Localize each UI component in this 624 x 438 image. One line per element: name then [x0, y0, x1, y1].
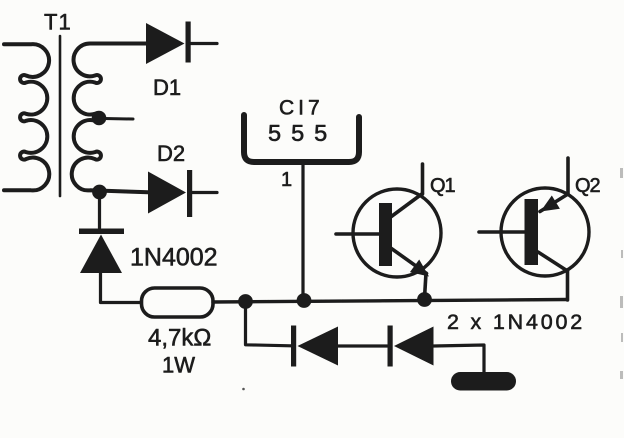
wire D1 cathode — [191, 42, 218, 45]
wire 555 pin 1 — [301, 164, 304, 300]
wire diode to resistor — [101, 272, 142, 303]
node bus junction B (555 pin 1) — [297, 293, 312, 308]
wire to 1N4002 diode — [98, 192, 101, 228]
transistor Q1 — [336, 164, 441, 298]
transformer T1 primary winding — [4, 44, 49, 190]
resistor 4,7k 1W — [142, 288, 214, 317]
svg-text:Q1: Q1 — [430, 175, 456, 197]
transformer T1 core — [59, 36, 62, 196]
node center-tap junction — [92, 111, 107, 126]
svg-text:1: 1 — [281, 169, 292, 191]
wire lower branch from junction A — [246, 302, 292, 346]
svg-text:T1: T1 — [44, 10, 72, 35]
svg-text:D2: D2 — [157, 141, 185, 166]
svg-text:CI7: CI7 — [279, 97, 324, 120]
wire center-tap stub — [104, 117, 133, 121]
wire between pair diodes — [338, 344, 387, 347]
svg-text:555: 555 — [268, 120, 337, 146]
wire Q1 base — [336, 232, 379, 236]
svg-text:1W: 1W — [162, 353, 195, 378]
op-amp U1: IC CI1 555 bracket — [244, 115, 359, 162]
node bus junction A — [238, 294, 253, 309]
wire Q1 collector — [390, 164, 423, 218]
svg-text:Q2: Q2 — [575, 175, 601, 197]
wire D2 cathode — [192, 191, 217, 194]
svg-text:D1: D1 — [153, 75, 181, 100]
transformer T1 secondary winding — [72, 43, 148, 192]
svg-text:1N4002: 1N4002 — [130, 244, 218, 272]
wire Q2 collector (bottom) — [538, 252, 568, 300]
wire Q2 emitter (top, arrow in) — [540, 158, 568, 212]
diode 1N4002 (vertical) — [79, 229, 124, 274]
diode D4 (right of pair) — [388, 326, 434, 367]
wire Q1 emitter — [390, 248, 427, 299]
transistor Q2 — [479, 158, 589, 300]
speck artifact — [242, 388, 245, 391]
svg-text:2 x 1N4002: 2 x 1N4002 — [447, 310, 585, 334]
wire Q2 base — [479, 230, 525, 234]
node secondary bottom junction — [92, 185, 107, 200]
diode D3 (left of pair) — [291, 326, 338, 367]
diode D1 — [146, 22, 191, 65]
node bus junction C (Q1 emitter) — [417, 292, 432, 307]
svg-text:4,7kΩ: 4,7kΩ — [148, 325, 211, 352]
wire to ground — [434, 345, 485, 372]
wire main bus — [213, 300, 567, 303]
diode D2 — [148, 170, 192, 217]
ground — [451, 372, 516, 391]
